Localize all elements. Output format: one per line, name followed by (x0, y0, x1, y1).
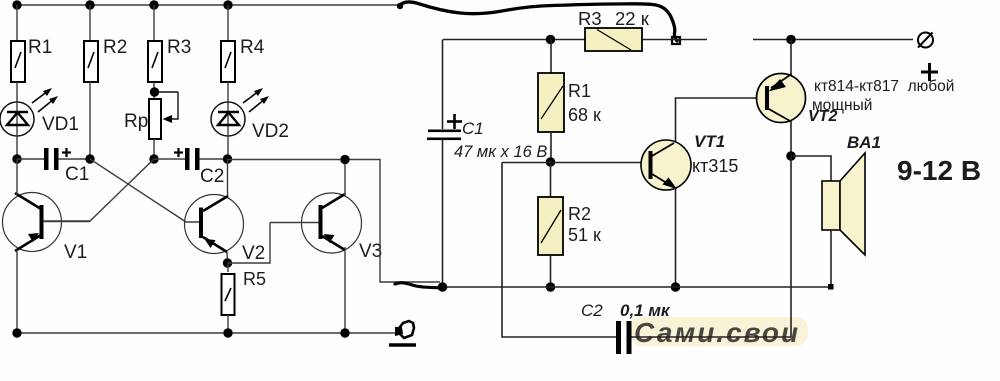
node C1 R2 junction (85, 154, 94, 163)
label C1 plus (62, 148, 71, 157)
svg-text:22 к: 22 к (615, 8, 650, 29)
wire VD1 to node (16, 136, 18, 159)
capacitor C2 0.1uF (right) (616, 321, 791, 354)
svg-text:R2: R2 (103, 37, 127, 58)
label R1 value 68k (568, 105, 601, 125)
label supply voltage 9-12V (897, 155, 981, 186)
wire C2 feedback vertical (790, 156, 792, 337)
wire C1 top lead (442, 40, 444, 130)
wire freehand squiggle bottom (to right circuit ground) (395, 283, 441, 288)
wire Rp bottom lead (153, 139, 155, 159)
label R2 (right) (568, 204, 591, 224)
svg-text:VD2: VD2 (252, 121, 289, 142)
wire V3 emitter vertical (344, 247, 346, 333)
label VT2 type kt814-kt817 (814, 78, 954, 95)
wire bottom rail left circuit (17, 332, 396, 334)
label BA1 (847, 133, 881, 152)
transistor VT2 (757, 74, 806, 123)
svg-text:кт315: кт315 (692, 156, 738, 176)
terminal plus supply (918, 33, 933, 48)
wire VT1 base (502, 162, 646, 164)
wire top rail right segment (753, 39, 913, 41)
wire freehand squiggle top (397, 2, 680, 44)
svg-text:кт814-кт817 любой: кт814-кт817 любой (814, 78, 954, 95)
wire R4 to VD2 (227, 82, 229, 102)
svg-text:C2: C2 (581, 301, 603, 320)
transistor V1 (3, 193, 91, 252)
svg-text:C1: C1 (65, 164, 89, 185)
wire R3 top lead (153, 5, 155, 41)
node VT2 collector speaker junction (786, 151, 796, 161)
svg-text:V1: V1 (64, 242, 87, 263)
resistor R1 (left) (11, 41, 25, 82)
svg-text:R4: R4 (240, 37, 265, 58)
svg-text:C1: C1 (462, 119, 484, 138)
wire VT2 emitter vertical (790, 40, 792, 76)
label R4 (240, 37, 265, 58)
wire VT2 collector vertical (790, 121, 792, 156)
label C1 (left) (65, 164, 89, 185)
node R2 bottom junction (546, 282, 556, 292)
wire V2 collector vertical (227, 159, 229, 196)
node bottom rail x228 (223, 328, 232, 337)
capacitor C2 (left) (185, 148, 200, 170)
svg-text:R5: R5 (243, 269, 266, 289)
resistor R1 68k (right) (538, 40, 564, 163)
label R3 value 22k (615, 8, 650, 29)
svg-text:C2: C2 (200, 166, 224, 187)
label VT1 type kt315 (692, 156, 738, 176)
label C2 (left) (200, 166, 224, 187)
node V1 collector junction (12, 154, 21, 163)
wire cross coupling C1 node to V2 base (90, 159, 199, 222)
svg-text:0,1 мк: 0,1 мк (620, 301, 671, 320)
label V1 (64, 242, 87, 263)
svg-text:9-12 В: 9-12 В (897, 155, 981, 186)
label R2 value 51k (568, 225, 601, 245)
label C2 plus (174, 148, 183, 157)
transistor V2 (185, 195, 244, 254)
wire R4 top lead (227, 5, 229, 41)
svg-text:R1: R1 (28, 37, 52, 58)
label C2 (right) (581, 301, 603, 320)
wire V2 emitter node to V3 base (228, 223, 271, 264)
wire cross coupling Rp node to V1 base (43, 159, 154, 221)
svg-text:47 мк x 16 В: 47 мк x 16 В (454, 143, 547, 161)
label C1 plus (right) (447, 114, 462, 129)
resistor R5 (222, 263, 235, 333)
wire R2 bottom lead (89, 82, 91, 159)
LED VD1 (0, 88, 58, 136)
node VT1 emitter junction (671, 282, 681, 292)
label VT2 (808, 108, 837, 125)
wire bottom rail right circuit (442, 286, 832, 288)
label R3 (right) (578, 8, 602, 29)
svg-text:VT1: VT1 (694, 132, 725, 151)
wire node to C2 (154, 158, 185, 160)
svg-text:51 к: 51 к (568, 225, 601, 245)
wire V3 collector vertical (344, 160, 346, 196)
node V2 emitter R5 junction (223, 258, 232, 267)
svg-text:V3: V3 (359, 241, 382, 262)
svg-text:VD1: VD1 (42, 114, 79, 135)
capacitor C1 47uF (right) (427, 130, 461, 288)
wire C2 to VD2 node (200, 158, 228, 160)
ground symbol left circuit (389, 321, 416, 345)
wire R3 to Rp (153, 82, 155, 99)
wire node to C1 (17, 158, 44, 160)
svg-text:Rp: Rp (124, 111, 148, 132)
resistor R3 22k (right) (585, 28, 642, 51)
resistor R2 51k (right) (538, 162, 563, 287)
node V3 collector junction (340, 155, 349, 164)
svg-text:R3: R3 (578, 8, 602, 29)
node R3 Rp junction (150, 87, 159, 96)
wire C1 to node R2 (59, 158, 91, 160)
node bottom rail x17 (12, 328, 21, 337)
node junction top rail x154 (149, 0, 158, 9)
label C2 value 0.1uF (620, 301, 671, 320)
node junction top rail x228 (223, 0, 232, 9)
label Rp (124, 111, 148, 132)
node junction top rail x90 (85, 0, 94, 9)
label VD1 (42, 114, 79, 135)
resistor R3 (left) (148, 41, 162, 82)
node junction top rail x17 (12, 0, 21, 9)
label R5 (243, 269, 266, 289)
svg-text:R3: R3 (167, 37, 191, 58)
node bottom rail x345 (340, 328, 349, 337)
wire V2 V3 collector rail to output (228, 160, 441, 283)
label R1 (right) (568, 81, 591, 101)
wire V1 emitter vertical (16, 250, 18, 333)
label C1 value 47uF 16V (454, 143, 547, 161)
resistor R4 (221, 41, 235, 82)
label R2 (left) (103, 37, 127, 58)
svg-text:68 к: 68 к (568, 105, 601, 125)
node V2 collector junction (223, 154, 232, 163)
transistor VT1 (641, 140, 691, 190)
wire VT1 emitter vertical (675, 188, 677, 287)
wire top rail left circuit (17, 4, 400, 6)
label R3 (left) (167, 37, 191, 58)
watermark text (634, 317, 800, 348)
wire V2 emitter to node (226, 252, 229, 263)
label supply plus sign (921, 63, 938, 81)
wire R2 top lead (89, 5, 91, 41)
node Rp C2 junction (149, 154, 158, 163)
wire V1 collector vertical (16, 159, 18, 195)
node R1 R2 base junction (546, 157, 556, 167)
speaker BA1 (822, 153, 865, 255)
transistor V3 (270, 193, 362, 253)
svg-text:R1: R1 (568, 81, 591, 101)
wire R1 to VD1 (16, 82, 18, 102)
label V2 (242, 243, 265, 264)
label VD2 (252, 121, 289, 142)
potentiometer Rp (149, 92, 178, 139)
LED VD2 (211, 88, 269, 136)
svg-text:мощный: мощный (812, 97, 872, 114)
label R1 (left) (28, 37, 52, 58)
node R1 top junction (546, 35, 556, 45)
wire C2 left branch (502, 163, 616, 338)
svg-text:R2: R2 (568, 204, 591, 224)
node bottom rail left end (438, 282, 448, 292)
wire VD2 to node (227, 136, 229, 159)
label V3 (359, 241, 382, 262)
label C1 (right) (462, 119, 484, 138)
wire top rail right circuit (443, 39, 707, 41)
node speaker rail corner (828, 284, 834, 290)
watermark band (630, 317, 808, 346)
svg-text:Сами.свои: Сами.свои (634, 317, 800, 348)
wire R1 top lead (16, 5, 18, 41)
label VT2 type power (812, 97, 872, 114)
wire speaker bottom branch (830, 230, 832, 287)
wire VT1 collector to VT2 base (676, 98, 766, 143)
svg-text:V2: V2 (242, 243, 265, 264)
svg-text:BA1: BA1 (847, 133, 881, 152)
resistor R2 (left) (84, 41, 98, 82)
label VT1 (694, 132, 725, 151)
capacitor C1 (left) (44, 148, 59, 170)
node VT2 emitter junction (786, 35, 796, 45)
wire speaker top branch (791, 156, 831, 181)
